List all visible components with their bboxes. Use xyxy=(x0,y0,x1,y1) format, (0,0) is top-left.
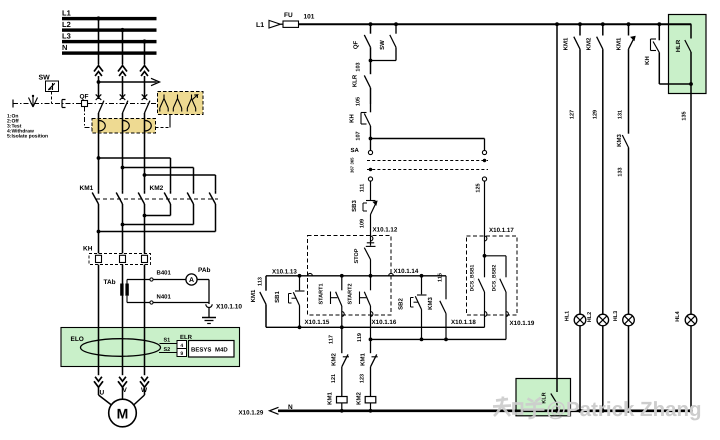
svg-text:V: V xyxy=(123,387,128,394)
svg-text:119: 119 xyxy=(357,333,363,342)
svg-text:M4D: M4D xyxy=(215,347,228,354)
svg-text:HL4: HL4 xyxy=(675,310,681,321)
svg-text:X10.1.10: X10.1.10 xyxy=(216,304,242,311)
svg-text:KM1: KM1 xyxy=(80,185,94,192)
svg-text:X10.1.19: X10.1.19 xyxy=(510,320,535,327)
svg-text:M: M xyxy=(117,406,129,422)
svg-text:N: N xyxy=(62,43,67,52)
svg-text:BESYS: BESYS xyxy=(191,347,211,354)
svg-text:365: 365 xyxy=(350,157,355,165)
svg-text:101: 101 xyxy=(304,14,315,21)
svg-text:B401: B401 xyxy=(157,270,172,277)
svg-text:123: 123 xyxy=(359,374,365,383)
svg-text:S1: S1 xyxy=(164,338,171,344)
svg-text:X10.1.13: X10.1.13 xyxy=(272,268,297,275)
svg-text:115: 115 xyxy=(438,273,444,282)
svg-text:133: 133 xyxy=(618,167,624,176)
svg-text:QF: QF xyxy=(80,94,89,101)
svg-text:KLR: KLR xyxy=(352,74,359,87)
svg-text:N401: N401 xyxy=(157,294,172,301)
svg-text:KM1: KM1 xyxy=(359,353,366,366)
svg-text:111: 111 xyxy=(360,184,366,193)
svg-text:L1: L1 xyxy=(62,9,71,18)
svg-text:5:Isolate position: 5:Isolate position xyxy=(7,134,48,140)
svg-text:W: W xyxy=(141,387,148,394)
svg-text:HLR: HLR xyxy=(675,39,682,52)
svg-text:KM3: KM3 xyxy=(427,297,434,310)
svg-text:4: 4 xyxy=(180,343,183,349)
svg-text:KM2: KM2 xyxy=(355,392,362,405)
svg-text:QF: QF xyxy=(353,41,360,50)
svg-text:129: 129 xyxy=(593,110,599,119)
svg-text:X10.1.12: X10.1.12 xyxy=(373,227,398,234)
svg-text:9: 9 xyxy=(180,351,183,357)
svg-text:PAb: PAb xyxy=(198,267,211,274)
svg-text:KM2: KM2 xyxy=(586,37,593,50)
svg-text:N: N xyxy=(288,404,293,411)
svg-text:121: 121 xyxy=(331,374,337,383)
svg-text:DCS_BSB1: DCS_BSB1 xyxy=(470,264,476,291)
svg-text:127: 127 xyxy=(570,110,576,119)
svg-text:L2: L2 xyxy=(62,20,71,29)
svg-text:109: 109 xyxy=(360,219,366,228)
svg-text:KM1: KM1 xyxy=(616,37,623,50)
svg-text:105: 105 xyxy=(356,97,362,106)
svg-text:SB1: SB1 xyxy=(274,291,281,303)
svg-text:@Patrick Zhang: @Patrick Zhang xyxy=(546,398,702,421)
svg-text:103: 103 xyxy=(356,62,362,71)
svg-text:X10.1.16: X10.1.16 xyxy=(372,319,397,326)
svg-text:113: 113 xyxy=(258,277,264,286)
svg-text:KH: KH xyxy=(349,114,356,123)
svg-text:X10.1.17: X10.1.17 xyxy=(489,227,514,234)
svg-text:L3: L3 xyxy=(62,32,71,41)
svg-text:TAb: TAb xyxy=(104,279,116,286)
svg-text:117: 117 xyxy=(329,335,335,344)
svg-text:START2: START2 xyxy=(348,284,354,305)
svg-text:HL1: HL1 xyxy=(565,311,571,321)
svg-text:SW: SW xyxy=(39,75,51,82)
svg-text:367: 367 xyxy=(350,165,355,173)
svg-text:KM1: KM1 xyxy=(250,289,257,302)
svg-text:X10.1.29: X10.1.29 xyxy=(239,410,264,417)
svg-text:A: A xyxy=(189,277,194,284)
svg-text:L1: L1 xyxy=(256,22,264,29)
svg-text:SA: SA xyxy=(351,147,360,154)
svg-text:KM2: KM2 xyxy=(150,185,164,192)
svg-text:107: 107 xyxy=(356,131,362,140)
svg-text:KH: KH xyxy=(83,246,93,253)
svg-text:135: 135 xyxy=(682,111,688,120)
svg-text:X10.1.15: X10.1.15 xyxy=(305,319,330,326)
svg-text:SB2: SB2 xyxy=(398,298,405,310)
svg-text:ELO: ELO xyxy=(71,336,84,343)
svg-text:KM3: KM3 xyxy=(616,134,623,147)
svg-text:HL3: HL3 xyxy=(613,311,619,321)
svg-text:KM2: KM2 xyxy=(331,353,338,366)
svg-text:X10.1.18: X10.1.18 xyxy=(451,319,476,326)
svg-text:SW: SW xyxy=(379,40,386,50)
svg-text:STOP: STOP xyxy=(354,248,360,263)
svg-text:KM1: KM1 xyxy=(327,392,334,405)
svg-text:SB3: SB3 xyxy=(351,200,358,212)
svg-text:START1: START1 xyxy=(319,284,325,305)
svg-text:KM1: KM1 xyxy=(563,37,570,50)
svg-text:X10.1.14: X10.1.14 xyxy=(394,268,419,275)
svg-text:KH: KH xyxy=(644,56,651,65)
svg-text:125: 125 xyxy=(476,183,482,192)
svg-text:131: 131 xyxy=(618,110,624,119)
svg-text:S2: S2 xyxy=(164,347,171,353)
svg-text:DCS_BSB2: DCS_BSB2 xyxy=(492,264,498,291)
svg-text:HL2: HL2 xyxy=(587,312,593,322)
svg-text:FU: FU xyxy=(284,12,293,19)
